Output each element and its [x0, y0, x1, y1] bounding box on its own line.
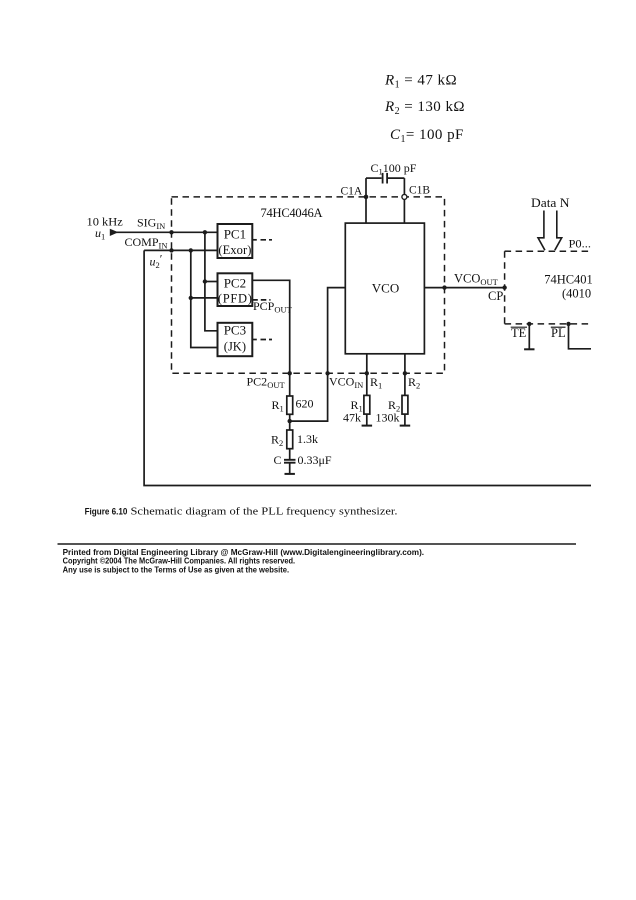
wire R2 to C	[289, 449, 291, 459]
wire PC1 output stub	[252, 239, 272, 241]
svg-text:C: C	[274, 453, 282, 467]
svg-text:C1A: C1A	[341, 186, 363, 198]
node SIG branch	[203, 230, 207, 234]
svg-text:0.33μF: 0.33μF	[298, 453, 332, 467]
node PC2OUT crossing	[288, 371, 292, 375]
wire PL output	[569, 324, 592, 349]
wire VCO_OUT	[424, 287, 504, 289]
terminator bar TE	[524, 348, 534, 350]
resistor R1 620	[287, 396, 293, 414]
wire VCO_IN path	[290, 288, 346, 422]
svg-text:C1100 pF: C1100 pF	[371, 161, 417, 177]
counter U2 dashed outline	[505, 251, 592, 324]
svg-text:1.3k: 1.3k	[297, 432, 318, 446]
svg-text:PL: PL	[551, 326, 566, 340]
node COMP branch	[189, 248, 193, 252]
node COMP at box edge	[169, 248, 173, 252]
svg-text:(PFD): (PFD)	[218, 292, 252, 306]
input source u1 arrow	[110, 229, 119, 236]
phase comparator PC3 (JK)	[218, 323, 253, 357]
resistor R2 130k	[402, 395, 408, 414]
ground bar below C	[285, 473, 295, 475]
svg-text:VCO: VCO	[372, 281, 399, 296]
capacitor C 0.33uF	[284, 460, 296, 463]
svg-text:C1B: C1B	[409, 185, 430, 197]
value label R1 = 47 kOhm	[384, 73, 457, 91]
capacitor C1 wires	[366, 178, 404, 223]
pin PL node	[566, 322, 570, 326]
svg-text:130k: 130k	[376, 410, 400, 424]
svg-text:74HC401: 74HC401	[544, 273, 593, 287]
wire SIG vertical branch to PC2 PC3	[205, 232, 218, 330]
svg-text:Copyright ©2004 The McGraw-Hil: Copyright ©2004 The McGraw-Hill Companie…	[63, 557, 296, 566]
svg-text:PC2: PC2	[224, 275, 246, 290]
node C1B	[402, 194, 407, 199]
capacitor C1 plates	[383, 173, 388, 184]
ground bar below R1 47k	[362, 425, 373, 427]
VCO block	[345, 223, 424, 354]
svg-text:(4010: (4010	[562, 287, 591, 301]
node SIG at box edge	[169, 230, 173, 234]
value label R2 = 130 kOhm	[384, 99, 465, 117]
wire PC2 output to PC2OUT pin	[252, 280, 289, 396]
svg-text:PC3: PC3	[224, 323, 246, 338]
svg-text:10 kHz: 10 kHz	[87, 214, 123, 228]
node CP pin	[502, 285, 506, 289]
wire COMP vertical branch to PC2 PC3	[191, 250, 218, 347]
svg-text:Schematic diagram of the PLL f: Schematic diagram of the PLL frequency s…	[131, 505, 398, 517]
node VCOIN crossing	[325, 371, 329, 375]
node at 4046 box edge	[442, 285, 446, 289]
node SIG to PC2	[203, 279, 207, 283]
phase comparator PC1 (Exor)	[218, 224, 253, 258]
node C1A	[364, 195, 369, 200]
wire VCO R1 pin	[366, 354, 368, 426]
wire R1 to R2	[289, 414, 291, 430]
svg-text:TE: TE	[511, 326, 527, 340]
svg-text:(JK): (JK)	[224, 339, 246, 353]
svg-text:74HC4046A: 74HC4046A	[261, 206, 323, 220]
pin TE node	[527, 322, 531, 326]
wire SIG_IN	[116, 231, 218, 233]
footer rule	[58, 543, 577, 545]
svg-text:47k: 47k	[343, 410, 361, 424]
wire PCP output dashed stub	[252, 299, 270, 301]
IC U1 74HC4046A dashed outline	[172, 197, 445, 373]
svg-text:Printed from Digital Engineeri: Printed from Digital Engineering Library…	[63, 548, 425, 557]
svg-text:Figure 6.10: Figure 6.10	[85, 506, 128, 516]
svg-text:PC1: PC1	[224, 226, 246, 241]
wire TE to terminator	[528, 324, 530, 349]
node divider junction	[288, 419, 292, 423]
wire COMP_IN	[144, 249, 217, 251]
wire C to terminal	[289, 463, 291, 474]
value label C1 = 100 pF	[390, 127, 464, 145]
Data N bus arrow	[538, 211, 562, 251]
ground bar below R2 130k	[400, 425, 411, 427]
node COMP to PC2	[189, 296, 193, 300]
svg-text:Any use is subject to the Term: Any use is subject to the Terms of Use a…	[63, 565, 290, 574]
phase comparator PC2 (PFD)	[218, 273, 253, 306]
resistor R1 47k	[364, 395, 370, 414]
svg-text:CP: CP	[488, 289, 503, 303]
resistor R2 1.3k	[287, 430, 293, 449]
wire PC3 output stub	[252, 339, 272, 341]
node R1 pin crossing	[365, 371, 369, 375]
svg-text:(Exor): (Exor)	[218, 243, 251, 257]
svg-text:Data N: Data N	[531, 196, 570, 210]
svg-text:620: 620	[296, 397, 314, 411]
wire VCO R2 pin	[404, 354, 406, 426]
feedback wire u2	[144, 250, 591, 485]
svg-text:P0...: P0...	[569, 238, 592, 250]
node R2 pin crossing	[403, 371, 407, 375]
